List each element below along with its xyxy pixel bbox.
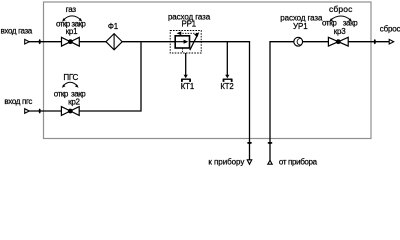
wire: PGS inlet line to valve KP2 [29,110,62,112]
svg-text:РР1: РР1 [182,20,197,29]
wire: gas inlet line to valve KP1 [29,41,62,43]
wire: branch down from PP1 to KT1 [185,53,187,77]
wire: F1 to PP1 square [122,41,176,43]
svg-text:сброс: сброс [380,24,400,33]
svg-text:ПГС: ПГС [63,73,78,82]
wire: PP1 to corner, down to "к прибору" [190,42,250,160]
node tick: gas inlet boundary crossing [39,39,41,44]
flow meter UR1 [294,37,303,46]
svg-text:УР1: УР1 [293,22,308,31]
svg-text:от прибора: от прибора [279,158,318,167]
wire: PGS line from valve KP2 up to main line [79,42,141,111]
system boundary box [44,2,372,139]
test point KT1 [181,75,191,82]
svg-text:сброс: сброс [329,4,353,14]
wire: branch down to KT2 [226,42,228,77]
wire: UR1 to valve KP3 [303,41,329,43]
svg-text:кр2: кр2 [68,97,80,106]
node tick: "к прибору" boundary crossing [247,142,252,144]
rotation arc for KP2 [62,82,79,87]
arrow: gas inlet open triangle [25,39,30,44]
arrow: discharge outlet open triangle [389,39,394,44]
wire: from "от прибора" up and right to UR1 [270,42,294,161]
svg-text:вход пгс: вход пгс [4,97,32,106]
node tick: "от прибора" boundary crossing [268,142,273,144]
valve KP2 [61,107,79,116]
wire: KP1 to filter F1 [79,41,106,43]
svg-text:откр: откр [54,89,69,98]
node tick: discharge boundary crossing [374,39,376,44]
svg-text:КТ1: КТ1 [181,82,194,91]
rotation arc for KP1 [62,16,82,22]
rotation arc for KP3 [329,16,352,22]
wire: KP3 to outlet [348,41,390,43]
svg-text:кр1: кр1 [66,27,78,36]
svg-text:к прибору: к прибору [208,158,244,167]
svg-text:Ф1: Ф1 [108,22,119,31]
valve KP1 [62,37,80,46]
arrow: "от прибора" open triangle up [268,160,272,164]
valve KP3 [328,37,348,46]
test point KT2 [223,75,233,82]
svg-text:газ: газ [66,5,77,14]
filter F1 [106,34,122,50]
svg-text:вход газа: вход газа [1,27,33,36]
arrow: PGS inlet open triangle [25,109,30,114]
arrow: "к прибору" open triangle down [247,160,252,165]
svg-text:КТ2: КТ2 [220,82,233,91]
node tick: PGS inlet boundary crossing [39,109,41,114]
flow regulator PP1 [170,31,201,54]
svg-text:кр3: кр3 [334,27,346,36]
